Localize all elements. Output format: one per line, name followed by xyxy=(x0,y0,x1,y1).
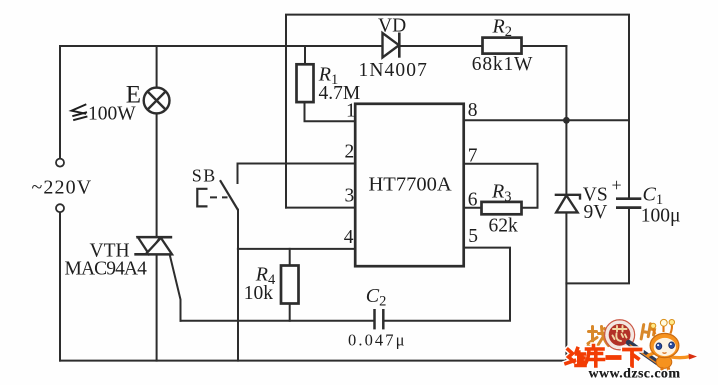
terminal upper ~220V xyxy=(56,159,64,167)
glyph zhao xyxy=(588,327,609,348)
wire right rail (VD/R2 to zener) xyxy=(565,46,567,361)
wire triac gate xyxy=(170,254,181,321)
wire R1 bottom to pin1 xyxy=(305,102,356,121)
wire bottom rail xyxy=(60,360,566,362)
wire C1 branch lower xyxy=(566,208,629,283)
wire pin4 xyxy=(238,248,355,250)
wire pin7 to R3 xyxy=(464,164,538,208)
mascot body xyxy=(648,352,697,374)
svg-text:www.dzsc.com: www.dzsc.com xyxy=(589,366,681,381)
glyph xia xyxy=(624,350,641,367)
wire inner box (pin3 to top border to right border) xyxy=(286,15,629,208)
glyph pian xyxy=(641,323,655,341)
wire left rail upper xyxy=(59,46,61,159)
IC U1 HT7700A box xyxy=(355,104,464,266)
glyph wei xyxy=(566,349,585,366)
glyph yi xyxy=(606,355,622,360)
node junction dot xyxy=(563,117,570,124)
wire pin3 xyxy=(286,207,355,209)
resistor R2 xyxy=(483,38,522,54)
wire SB pin2 xyxy=(238,164,356,184)
wire pin8 xyxy=(464,119,629,121)
resistor R3 xyxy=(482,202,522,214)
magnifier glass xyxy=(605,320,635,350)
lamp E xyxy=(144,88,170,114)
triac VTH xyxy=(134,237,172,254)
mascot eyes xyxy=(656,343,662,350)
resistor R4 xyxy=(281,266,299,304)
mascot antennae xyxy=(653,325,672,334)
glyph wei halo xyxy=(566,346,641,367)
capacitor C1 plates xyxy=(616,199,641,208)
wire left rail lower xyxy=(59,212,61,361)
wire lamp branch xyxy=(156,46,158,361)
label 100W leq sign xyxy=(72,104,88,120)
mascot antenna balls xyxy=(651,323,656,328)
switch SB xyxy=(197,180,238,210)
terminal lower ~220V xyxy=(56,204,64,212)
wire R1 top stub xyxy=(304,46,306,64)
mascot head xyxy=(650,333,679,357)
capacitor C2 plates xyxy=(375,309,384,329)
wire top main rail xyxy=(60,45,566,47)
wire pin6 to R3 xyxy=(464,207,482,209)
glyph xin in glass xyxy=(613,326,627,341)
wire SB bottom xyxy=(237,210,239,361)
diode VD xyxy=(383,33,400,58)
glyph ku xyxy=(585,346,604,367)
resistor R1 xyxy=(297,64,314,102)
wire gate/C2 rail xyxy=(181,248,511,321)
watermark logo xyxy=(566,319,697,374)
magnifier handle xyxy=(629,343,659,364)
zener VS xyxy=(555,195,580,213)
wire R4 stubs xyxy=(289,249,291,321)
